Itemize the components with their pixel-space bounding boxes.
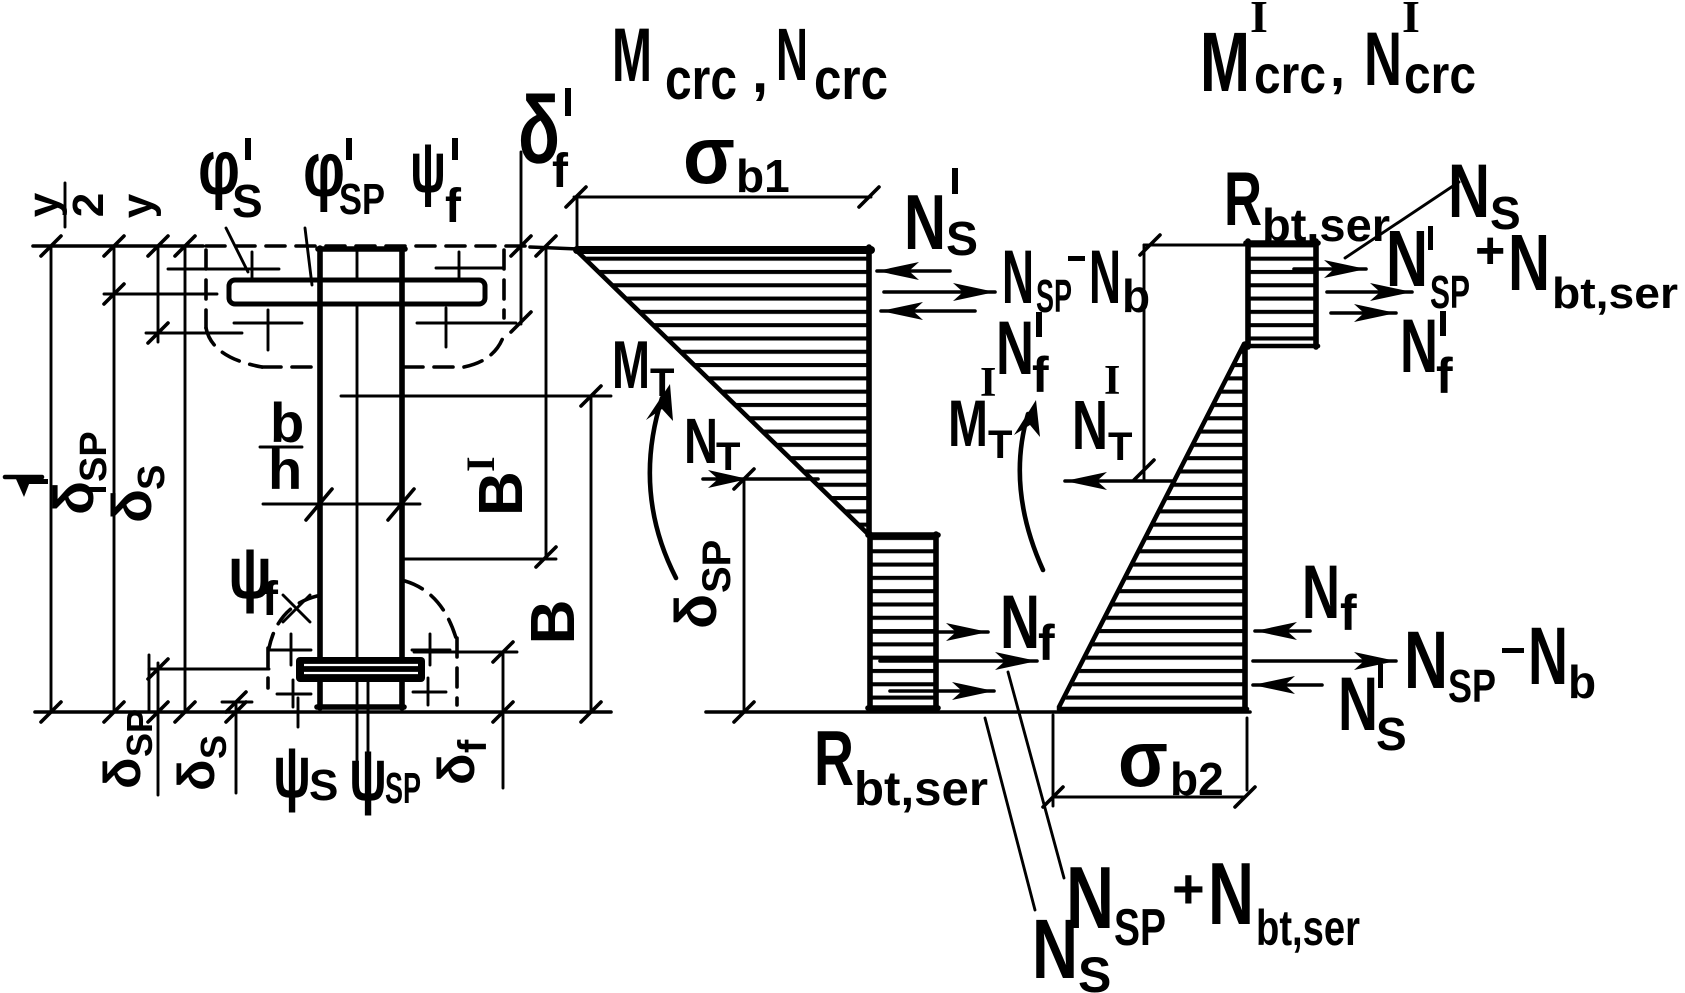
svg-text:,: ,: [752, 40, 768, 105]
label psi-f-prime prime: [452, 138, 458, 160]
label sigma-b2: [1118, 714, 1224, 805]
tick y246 x51: [41, 236, 61, 256]
label N-sp plus N-bt-ser: [1066, 844, 1360, 957]
svg-text:T: T: [988, 423, 1012, 467]
bottom reinforcement plate: [296, 657, 425, 682]
svg-text:SP: SP: [1114, 899, 1166, 957]
sigma-b1 dimension line y=197: [574, 196, 871, 199]
svg-text:M: M: [1200, 15, 1250, 109]
svg-text:crc: crc: [1254, 45, 1326, 105]
svg-text:N: N: [996, 306, 1034, 391]
tick y712 x114: [104, 702, 124, 722]
svg-text:+: +: [1172, 857, 1205, 920]
svg-text:I: I: [980, 360, 996, 406]
tick y712 x503: [493, 702, 513, 722]
label R-bt-ser middle: [814, 714, 988, 816]
tick y712 x51: [41, 702, 61, 722]
svg-text:N: N: [1000, 580, 1040, 665]
label delta-sp-prime rotated: [28, 431, 115, 515]
tension block left edge: [867, 534, 873, 710]
label delta-f rotated: [428, 739, 495, 785]
svg-text:b2: b2: [1170, 753, 1224, 805]
tick y712 x591: [581, 702, 601, 722]
label N-s-prime bottom right: [1338, 662, 1407, 760]
svg-text:2: 2: [64, 193, 113, 217]
label B-I rotated: [458, 456, 536, 516]
bottom rebar cross 4: [413, 678, 446, 705]
arrow right y292: [884, 283, 995, 301]
tick y669 x158: [148, 659, 168, 679]
web top edge: [318, 246, 405, 252]
svg-text:h: h: [268, 438, 302, 501]
svg-text:,: ,: [1330, 38, 1345, 98]
top fiber line (dashed over flange): [206, 244, 530, 248]
svg-text:N: N: [1400, 304, 1438, 389]
svg-text:δ: δ: [94, 757, 152, 789]
auxiliary line x=368 bottom: [367, 668, 370, 793]
rebar cross x252 y269: [251, 252, 254, 284]
bottom step vertical x=149: [148, 655, 151, 712]
psi-f cross mark: [283, 595, 310, 622]
svg-text:f: f: [451, 739, 495, 753]
tick y797 x1245: [1235, 787, 1255, 807]
tension triangle right edge: [1242, 344, 1248, 710]
web right edge: [399, 248, 405, 708]
M-T moment arc: [646, 384, 676, 578]
svg-text:S: S: [232, 175, 263, 227]
label R-bt-ser right: [1224, 157, 1390, 251]
arrow right y269: [1294, 260, 1366, 278]
leader phi-sp: [305, 228, 312, 285]
svg-text:y: y: [113, 193, 162, 218]
tick y712 x158: [148, 702, 168, 722]
tension triangle bottom: [1059, 707, 1247, 712]
section bottom line: [35, 710, 611, 714]
svg-text:y: y: [19, 192, 68, 217]
svg-text:N: N: [1302, 550, 1340, 635]
compression block top edge: [1246, 240, 1318, 246]
title M-I crc N-I crc: [1200, 0, 1476, 109]
stress triangle right edge: [866, 247, 872, 534]
sigma-b2 extension x=1053: [1052, 715, 1055, 806]
extension line x=185 full height: [184, 246, 187, 712]
tick y712 x185: [175, 702, 195, 722]
tension triangle hypotenuse: [1059, 344, 1244, 707]
svg-text:I: I: [1104, 358, 1120, 404]
svg-text:S: S: [131, 465, 173, 490]
label phi-sp-prime prime: [346, 138, 352, 160]
tick y246 x158: [148, 236, 168, 256]
svg-text:σ: σ: [1118, 714, 1168, 803]
top flange bottom dashed right: [404, 365, 464, 369]
svg-text:SP: SP: [119, 709, 160, 757]
arrow left y311: [881, 302, 975, 320]
leader line 2: [1008, 672, 1064, 878]
svg-text:B: B: [519, 600, 588, 645]
label N-f-prime middle: [996, 306, 1049, 403]
extension line x=236 bottom: [235, 702, 238, 793]
svg-text:σ: σ: [683, 110, 735, 201]
arrow left y631: [1255, 622, 1310, 640]
svg-text:f: f: [1038, 615, 1055, 671]
svg-text:δ: δ: [664, 594, 729, 629]
tick x521 y246: [511, 236, 531, 256]
rebar cross x446 y323: [445, 308, 448, 347]
N-s leader line: [1345, 182, 1459, 258]
svg-text:B: B: [467, 471, 536, 516]
svg-text:SP: SP: [385, 764, 421, 813]
extension line x=158 top segment: [157, 246, 160, 342]
svg-text:I: I: [1250, 0, 1268, 42]
top flange bottom dashed left: [262, 365, 318, 369]
bottom step line y=669: [149, 668, 269, 671]
svg-text:S: S: [1078, 947, 1111, 993]
rebar level line y=269 left: [168, 268, 279, 271]
compression block left edge: [1245, 241, 1251, 347]
label M-I-T: [948, 360, 1012, 467]
N-I-T extension vertical x=1144: [1143, 245, 1146, 481]
svg-text:N: N: [1208, 844, 1254, 943]
extension line x=158 bottom segment: [157, 663, 160, 795]
tick x744 y479: [734, 469, 754, 489]
svg-text:S: S: [946, 213, 978, 266]
label y rotated: [113, 193, 162, 218]
svg-text:f: f: [1340, 585, 1357, 641]
bottom flange dashed right vertical: [455, 638, 459, 705]
arrow right y691: [890, 682, 994, 700]
delta-f-prime extension x=521: [520, 152, 523, 324]
N-I-T arrow: [1065, 472, 1174, 490]
label N-s bottom: [1032, 902, 1111, 993]
svg-text:T: T: [650, 361, 674, 405]
rebar cross x268 y323: [234, 310, 302, 350]
label y/2 rotated: [19, 183, 113, 227]
svg-text:bt,ser: bt,ser: [854, 763, 988, 816]
tick x521 y322: [511, 312, 531, 332]
B dimension vertical x=591: [590, 396, 593, 712]
svg-text:SP: SP: [339, 175, 385, 224]
rebar level line y=269 right: [436, 267, 503, 270]
M-I-T moment arc: [1014, 400, 1043, 570]
svg-text:S: S: [309, 761, 338, 810]
stress triangle left edge: [576, 197, 579, 250]
label N-T: [684, 405, 740, 479]
tick x546 y557: [536, 547, 556, 567]
label delta-sp rotated: [664, 540, 739, 629]
svg-text:b: b: [1568, 656, 1596, 708]
label N-f right: [1302, 550, 1357, 641]
svg-text:f: f: [445, 180, 462, 233]
tick y197 x869: [859, 187, 879, 207]
svg-text:N: N: [1089, 235, 1121, 320]
arrow right y313: [1331, 304, 1396, 322]
level line y=333: [146, 332, 242, 335]
leader line 1: [985, 718, 1035, 910]
extension line x=51 full height: [50, 246, 53, 712]
svg-text:ψ: ψ: [410, 128, 446, 208]
top flange left fillet dashed: [206, 328, 262, 367]
tick y504 x320: [306, 489, 332, 520]
sigma-b2 extension x=1247: [1246, 718, 1249, 790]
stress triangle hatch fill: [578, 254, 868, 534]
svg-text:SP: SP: [73, 431, 115, 482]
tick y712 x744: [734, 702, 754, 722]
bottom reference line middle: [706, 710, 1250, 714]
tension triangle hatch right: [1062, 348, 1244, 706]
rebar axis line y=323 right: [417, 322, 516, 325]
svg-text:crc: crc: [665, 47, 737, 112]
section centerline x=357: [356, 250, 359, 792]
svg-text:+: +: [1475, 222, 1505, 280]
arrow left y271: [877, 262, 950, 280]
svg-text:I: I: [1402, 0, 1420, 42]
tick y396 x591: [581, 386, 601, 406]
svg-text:N: N: [1364, 17, 1402, 102]
delta-f extension x=503: [502, 652, 505, 788]
tick y702 x236: [226, 692, 246, 712]
title M crc N crc: [612, 13, 888, 112]
svg-text:N: N: [1404, 615, 1448, 706]
compression block hatch right: [1249, 243, 1315, 345]
compression block bottom edge: [1246, 344, 1318, 349]
tick y797 x1053: [1043, 787, 1063, 807]
top fiber line right diagram: [1144, 244, 1249, 247]
SECTION: [5, 77, 611, 816]
label delta-sp rotated: [94, 709, 160, 789]
svg-text:N: N: [1338, 662, 1378, 747]
rebar cross x459 y269: [458, 252, 461, 284]
label N-I-T: [1072, 358, 1132, 469]
tick y333 x158: [148, 323, 168, 343]
B-I top reference line y=396: [341, 395, 611, 398]
svg-text:δ: δ: [42, 481, 105, 515]
svg-text:N: N: [1386, 214, 1428, 303]
b dimension line y=504: [263, 503, 420, 506]
B-I bottom reference line y=559: [404, 558, 556, 561]
tick y652 x503: [493, 642, 513, 662]
tick y504 x402: [388, 489, 414, 520]
bottom flange dashed left vertical: [266, 648, 270, 688]
B-I dimension vertical x=546: [545, 246, 548, 557]
label N-sp minus N-b: [1002, 235, 1150, 322]
stress triangle top edge: [577, 246, 871, 254]
compression block right edge: [1313, 241, 1319, 347]
N-T arrow: [703, 470, 818, 488]
svg-text:δ: δ: [428, 753, 486, 785]
label phi-s-prime prime: [245, 138, 251, 160]
svg-text:f: f: [262, 573, 279, 626]
tension block right edge: [933, 534, 939, 710]
label N-sp minus N-b right: [1404, 611, 1596, 712]
label M-T: [612, 327, 674, 405]
svg-text:δ: δ: [168, 759, 226, 791]
svg-text:SP: SP: [695, 540, 739, 593]
svg-text:S: S: [1376, 708, 1407, 760]
top reinforcement plate: [229, 280, 485, 304]
tick y294 x114: [104, 284, 124, 304]
arrow left y685: [1253, 676, 1322, 694]
tick y197 x576: [566, 187, 586, 207]
small bracket y=702: [222, 701, 252, 704]
svg-text:SP: SP: [1448, 660, 1496, 712]
label delta-s rotated: [168, 735, 234, 791]
bottom rebar cross 1: [270, 634, 311, 665]
level line y=294: [104, 293, 217, 296]
bottom extension x=298: [297, 698, 300, 727]
stress triangle hypotenuse: [578, 252, 868, 534]
svg-text:M: M: [612, 327, 650, 403]
RIGHT: [948, 0, 1678, 807]
svg-text:S: S: [193, 735, 234, 759]
bottom flange dashed right fillet: [405, 581, 456, 638]
label b/h fraction: [260, 391, 304, 501]
svg-text:bt,ser: bt,ser: [1256, 900, 1360, 956]
label N-s with leader: [1448, 149, 1521, 239]
tick x546 y246: [536, 236, 556, 256]
label h mark: [5, 477, 42, 497]
top flange dashed left vertical: [204, 250, 208, 328]
svg-text:f: f: [1436, 348, 1453, 404]
tension block hatch: [870, 536, 934, 708]
top fiber line (solid left part): [33, 244, 203, 248]
web left edge: [317, 248, 323, 708]
arrow right y632: [873, 623, 988, 641]
top flange right fillet dashed: [464, 331, 505, 367]
tension block top edge: [868, 532, 938, 538]
svg-text:R: R: [1224, 157, 1262, 242]
arrow right y661: [1253, 652, 1396, 670]
tick y246 x114: [104, 236, 124, 256]
svg-text:I: I: [458, 456, 503, 472]
tension block bottom edge: [868, 705, 938, 711]
label N-s-prime top: [904, 168, 978, 266]
svg-text:N: N: [1508, 218, 1550, 307]
leader phi-s: [226, 228, 248, 272]
top fiber line link to stress diagram: [530, 247, 578, 249]
bottom flange dashed left fillet: [269, 596, 317, 648]
svg-text:b1: b1: [736, 150, 790, 202]
svg-text:N: N: [776, 13, 808, 96]
svg-text:T: T: [716, 435, 740, 479]
svg-text:N: N: [904, 178, 946, 266]
tick y712 x236: [226, 702, 246, 722]
extension line x=114 full height: [113, 246, 116, 712]
sigma-b2 dimension line y=797: [1053, 796, 1245, 799]
bottom rebar cross 2: [412, 634, 450, 665]
label delta-s-prime rotated: [86, 465, 173, 523]
label N-f middle: [1000, 580, 1055, 671]
svg-text:M: M: [612, 13, 652, 98]
web bottom edge: [317, 704, 404, 710]
tick y245 x1150: [1140, 235, 1160, 255]
arrow right y661: [880, 652, 1037, 670]
top flange dashed right vertical: [502, 250, 506, 318]
svg-text:f: f: [552, 145, 569, 198]
bottom rebar cross 3: [277, 680, 311, 707]
svg-text:crc: crc: [814, 47, 888, 112]
tick x1144 y470: [1134, 460, 1154, 480]
label sigma-b1: [683, 110, 790, 202]
svg-text:δ: δ: [100, 489, 163, 523]
svg-text:b: b: [1122, 270, 1150, 322]
svg-text:ψ: ψ: [273, 730, 311, 813]
svg-text:crc: crc: [1404, 45, 1476, 105]
MIDDLE: [566, 13, 1360, 993]
svg-text:N: N: [1032, 902, 1078, 993]
label B rotated: [519, 600, 588, 645]
delta-sp dimension vertical x=744: [743, 479, 746, 712]
svg-text:N: N: [1072, 386, 1108, 464]
svg-text:ψ: ψ: [349, 733, 387, 816]
tick y246 x185: [175, 236, 195, 256]
svg-text:R: R: [814, 714, 854, 802]
label N-f-prime right: [1400, 304, 1453, 404]
svg-text:bt,ser: bt,ser: [1552, 269, 1678, 318]
svg-text:N: N: [684, 405, 718, 477]
label N-sp-prime plus N-bt-ser: [1386, 214, 1678, 318]
svg-text:N: N: [1528, 611, 1568, 702]
label delta-f-prime prime: [565, 88, 571, 116]
svg-text:T: T: [1108, 425, 1132, 469]
svg-text:f: f: [1032, 347, 1049, 403]
delta-f reference line y=652: [414, 651, 517, 654]
arrow right y292: [1327, 283, 1412, 301]
